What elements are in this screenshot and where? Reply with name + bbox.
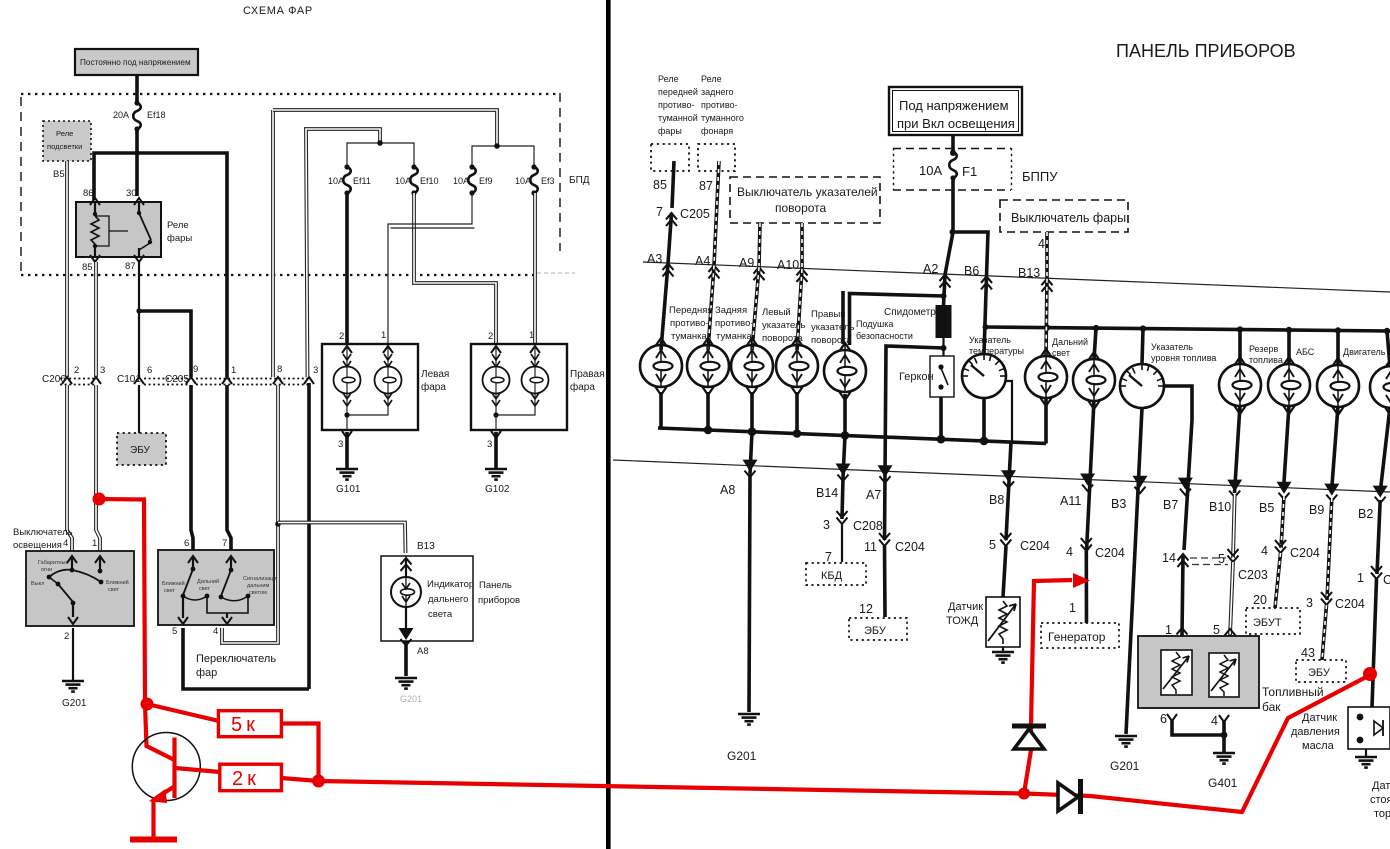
svg-text:Панель: Панель — [479, 580, 512, 591]
svg-text:С203: С203 — [1238, 568, 1268, 582]
red wire 5k to collector junction — [281, 724, 318, 782]
svg-text:свет: свет — [164, 588, 175, 594]
svg-text:Реле: Реле — [167, 220, 189, 231]
svg-text:указатель: указатель — [762, 320, 805, 331]
svg-text:А8: А8 — [417, 646, 429, 657]
svg-text:Дальний: Дальний — [197, 578, 219, 585]
svg-text:Дат: Дат — [1372, 780, 1390, 792]
ABS lamp АБС — [1268, 357, 1310, 414]
svg-text:Еf10: Еf10 — [420, 176, 439, 186]
bus row 1 line — [643, 262, 1390, 292]
svg-text:противо-: противо- — [658, 100, 695, 110]
fuel gauge sender output to B7 — [1164, 386, 1192, 550]
reserve lamp Резерв топлива — [1219, 357, 1261, 414]
svg-text:ЭБУ: ЭБУ — [1308, 667, 1331, 679]
svg-text:указатель: указатель — [811, 322, 854, 333]
svg-text:9: 9 — [193, 364, 198, 375]
red tap blob on light switch wire — [93, 493, 106, 506]
wire feed to fuel gauge — [1142, 329, 1143, 364]
wire Ef10 to right lamp pin2 (double) — [414, 193, 496, 344]
bus row 2 line — [613, 460, 1390, 492]
fuse Ef9 10A — [468, 164, 476, 195]
svg-text:4: 4 — [1261, 544, 1268, 558]
wire dimmer pin5 low beam to x310 riser — [183, 628, 309, 689]
wire edge lamp to B2 — [1380, 407, 1390, 494]
feed wire to fuses Ef11/Ef10 (double) — [306, 129, 380, 377]
svg-text:туманка: туманка — [716, 331, 753, 342]
svg-text:топлива: топлива — [1249, 355, 1283, 365]
fuse block dashed border БПД (left) — [21, 93, 575, 275]
B14 column below bus — [843, 435, 845, 477]
svg-text:А9: А9 — [739, 256, 754, 270]
svg-text:Спидометр: Спидометр — [884, 307, 936, 318]
wire dimmer pin4 loop to x278 riser (double) — [222, 524, 278, 643]
svg-text:Выкл: Выкл — [31, 581, 44, 587]
svg-text:Реле: Реле — [658, 74, 679, 84]
fuse Ef11 10A — [343, 164, 351, 195]
svg-text:масла: масла — [1302, 740, 1335, 752]
red ground bar — [130, 837, 177, 843]
svg-text:при Вкл освещения: при Вкл освещения — [897, 116, 1015, 131]
svg-text:противо-: противо- — [670, 318, 709, 329]
svg-text:3: 3 — [823, 518, 830, 532]
svg-text:приборов: приборов — [478, 595, 520, 606]
svg-text:14: 14 — [1162, 551, 1176, 565]
power box Под напряжением при Вкл освещения — [889, 87, 1022, 135]
svg-text:Еf3: Еf3 — [541, 176, 555, 186]
wire fuse F1 to A2 and B6 — [951, 178, 955, 232]
svg-text:G101: G101 — [336, 484, 361, 495]
svg-text:2к: 2к — [232, 768, 260, 790]
svg-text:БПД: БПД — [569, 175, 590, 186]
edge lamp partial — [1370, 359, 1390, 416]
svg-text:1: 1 — [529, 330, 534, 341]
svg-text:43: 43 — [1301, 646, 1315, 660]
right headlamp box Правая фара — [471, 330, 567, 438]
svg-text:А7: А7 — [866, 488, 881, 502]
svg-text:Постоянно под напряжением: Постоянно под напряжением — [80, 58, 191, 67]
svg-text:3: 3 — [313, 365, 318, 376]
svg-text:подсветки: подсветки — [47, 142, 82, 151]
svg-text:7: 7 — [825, 550, 832, 564]
svg-text:12: 12 — [859, 602, 873, 616]
B9 column striped C204 ЭБУ — [1296, 498, 1365, 682]
svg-text:87: 87 — [125, 261, 136, 272]
svg-text:6: 6 — [1160, 712, 1167, 726]
speedometer signal to A7 column — [885, 346, 944, 540]
svg-text:С204: С204 — [1020, 539, 1050, 553]
ground G101 — [336, 469, 358, 480]
wire Ef3 to right lamp pin1 (double) — [533, 193, 537, 344]
left headlamp box Левая фара — [322, 330, 418, 438]
svg-text:фара: фара — [421, 381, 446, 393]
svg-text:В5: В5 — [1259, 501, 1274, 515]
power box Постоянно под напряжением — [75, 49, 198, 75]
svg-text:фары: фары — [658, 126, 682, 136]
fuel gauge Указатель уровня топлива — [1120, 364, 1164, 408]
svg-text:С204: С204 — [1095, 546, 1125, 560]
fuel tank box Топливный бак — [1138, 636, 1259, 708]
wire B6 down to temp gauge — [984, 276, 987, 354]
svg-text:В13: В13 — [1018, 266, 1040, 280]
svg-text:ПАНЕЛЬ ПРИБОРОВ: ПАНЕЛЬ ПРИБОРОВ — [1116, 41, 1296, 61]
airbag lamp feed from A2 column — [850, 294, 944, 346]
wire A9 to left turn lamp (striped) — [752, 267, 759, 350]
svg-text:10А: 10А — [453, 176, 469, 186]
fuel temp sensor Датчик ТОЖД — [946, 597, 1020, 663]
svg-text:7: 7 — [222, 538, 227, 549]
wire junction to B13 indicator (double) — [278, 523, 406, 554]
divider line between schematic halves — [606, 0, 611, 849]
svg-text:Левая: Левая — [421, 369, 449, 380]
dashed box around fuse F1 — [893, 148, 1012, 190]
svg-text:А2: А2 — [923, 262, 938, 276]
svg-text:СХЕМА ФАР: СХЕМА ФАР — [243, 5, 313, 17]
svg-text:G201: G201 — [62, 698, 87, 709]
svg-text:светом: светом — [249, 590, 267, 596]
high beam indicator box Индикатор дальнего света — [381, 541, 473, 646]
wire turn switch to A10 (striped) — [800, 223, 804, 269]
wire Ef11 to left lamp pin2 — [345, 193, 349, 350]
svg-text:Выключатель: Выключатель — [13, 527, 73, 538]
svg-text:свет: свет — [1052, 348, 1070, 358]
row2 feed bus from B6 — [986, 327, 1390, 331]
fuse Ef18 20A — [133, 100, 141, 131]
svg-text:температуры: температуры — [969, 346, 1024, 356]
svg-text:фар: фар — [196, 667, 217, 679]
red blob on B2 wire — [1363, 667, 1377, 681]
junction x278 to indicator feed — [275, 521, 281, 527]
svg-text:87: 87 — [699, 179, 713, 193]
wire branch to relay pins 86 and C205 pin1 — [94, 153, 227, 377]
svg-text:Ближний: Ближний — [106, 579, 129, 586]
svg-text:Индикатор: Индикатор — [427, 579, 474, 590]
wire A3 to front fog lamp — [661, 264, 668, 351]
svg-text:БППУ: БППУ — [1022, 169, 1058, 184]
wire high beam lamp to bus end — [1044, 397, 1048, 444]
svg-text:11: 11 — [864, 540, 877, 554]
red arrowhead at A11 wire — [1073, 573, 1090, 588]
svg-text:С204: С204 — [895, 540, 925, 554]
svg-text:Правая: Правая — [570, 369, 605, 380]
B5 column striped C204 ЭБУТ — [1246, 496, 1320, 634]
dimmer switch box Переключатель фар — [158, 538, 279, 625]
svg-text:5: 5 — [1213, 623, 1220, 637]
svg-text:10А: 10А — [515, 176, 531, 186]
svg-text:Еf11: Еf11 — [353, 176, 371, 186]
red wire 2k to junction — [281, 778, 318, 781]
red wire base feed into transistor — [145, 704, 175, 760]
svg-text:1: 1 — [381, 330, 386, 341]
svg-text:6: 6 — [147, 365, 152, 376]
svg-text:фары: фары — [167, 233, 192, 244]
svg-text:С204: С204 — [1290, 546, 1320, 560]
svg-text:С2: С2 — [1383, 573, 1390, 587]
svg-text:3: 3 — [1306, 596, 1313, 610]
svg-text:4: 4 — [1066, 545, 1073, 559]
svg-text:1: 1 — [1165, 623, 1172, 637]
svg-text:А11: А11 — [1060, 494, 1081, 508]
fuse F1 10A — [949, 149, 957, 180]
svg-text:6: 6 — [184, 538, 189, 549]
svg-text:В13: В13 — [417, 541, 435, 552]
svg-text:4: 4 — [1038, 237, 1045, 251]
svg-text:освещения: освещения — [13, 540, 62, 551]
svg-text:света: света — [428, 609, 453, 620]
resistor R2 2k (red box) — [220, 764, 282, 791]
svg-text:огни: огни — [41, 567, 52, 573]
svg-text:4: 4 — [1211, 714, 1218, 728]
dotted box rear fog relay — [698, 144, 735, 171]
svg-text:туманного: туманного — [701, 113, 744, 123]
wire 87 to C205 pin9 — [139, 311, 191, 377]
svg-text:А3: А3 — [647, 252, 662, 266]
wire low beam x310 thick — [307, 383, 311, 689]
wire 87 to C101 pin6 — [138, 311, 140, 377]
svg-text:Левый: Левый — [762, 307, 791, 318]
svg-text:30: 30 — [126, 188, 137, 199]
wire relay 87 down — [138, 262, 140, 311]
svg-text:20: 20 — [1253, 593, 1267, 607]
svg-text:Двигатель: Двигатель — [1343, 347, 1386, 357]
svg-text:В10: В10 — [1209, 500, 1231, 514]
svg-text:дальним: дальним — [247, 583, 269, 589]
right turn lamp — [776, 338, 818, 395]
svg-text:КБД: КБД — [821, 570, 843, 582]
svg-text:уровня топлива: уровня топлива — [1151, 353, 1216, 363]
long red wire across page — [319, 781, 1025, 794]
fuse top bus Ef9-Ef3 — [472, 146, 534, 168]
wire front fog relay to A3 w/ C205 pin7 — [672, 161, 674, 208]
wire C206/2 to light switch pin4 (double) — [67, 385, 72, 551]
return bus (thick) — [658, 428, 1046, 444]
junction 87 — [136, 308, 141, 313]
left turn lamp — [731, 338, 773, 395]
generator dotted box Генератор — [1041, 623, 1119, 648]
red junction blob — [141, 698, 154, 711]
svg-text:передней: передней — [658, 87, 698, 97]
lamp row1 return stubs — [659, 392, 663, 428]
svg-text:4: 4 — [213, 626, 218, 637]
wire lamp2 to A11 — [1087, 400, 1095, 551]
svg-text:свет: свет — [108, 587, 119, 593]
svg-text:Датчик: Датчик — [948, 601, 983, 613]
svg-text:стоя: стоя — [1370, 794, 1390, 806]
svg-text:Указатель: Указатель — [969, 335, 1011, 345]
ground G102 — [485, 469, 507, 480]
light switch box Выключатель освещения — [26, 538, 134, 626]
svg-text:поворота: поворота — [775, 201, 827, 215]
front fog lamp — [640, 338, 682, 395]
svg-text:3: 3 — [338, 439, 343, 450]
svg-text:5: 5 — [172, 626, 177, 637]
svg-text:давления: давления — [1291, 726, 1340, 738]
svg-text:Топливный: Топливный — [1262, 685, 1324, 699]
oil pressure switch box Датчик давления масла — [1348, 707, 1390, 749]
svg-text:85: 85 — [82, 262, 93, 273]
svg-text:2: 2 — [64, 631, 69, 642]
B14 column C208 КБД — [806, 478, 883, 586]
svg-text:7: 7 — [656, 205, 663, 219]
svg-text:Реле: Реле — [701, 74, 722, 84]
temp gauge Указатель температуры — [962, 354, 1006, 398]
red junction blob 2 — [312, 775, 325, 788]
fuel tank bottom pins 6 4 to G401 — [1160, 712, 1238, 790]
junction at fuse/branch — [134, 150, 140, 156]
svg-text:А10: А10 — [777, 258, 799, 272]
svg-text:В5: В5 — [53, 169, 65, 180]
svg-text:G401: G401 — [1208, 776, 1238, 790]
svg-text:10А: 10А — [919, 163, 942, 178]
svg-text:В9: В9 — [1309, 503, 1324, 517]
speedometer pickup black rect — [936, 305, 952, 338]
relay box Реле подсветки — [43, 121, 91, 161]
wire fuse Ef18 down to relay branch — [135, 129, 139, 196]
svg-text:Выключатель фары: Выключатель фары — [1011, 211, 1126, 225]
svg-text:С208: С208 — [853, 519, 883, 533]
svg-text:С204: С204 — [1335, 597, 1365, 611]
svg-text:Дальний: Дальний — [1052, 337, 1088, 347]
svg-text:В3: В3 — [1111, 497, 1126, 511]
red wire continue right of junction3 — [1024, 794, 1090, 797]
svg-text:ЭБУ: ЭБУ — [130, 445, 151, 456]
svg-text:Передняя: Передняя — [669, 305, 713, 316]
airbag/B14 column upper stub — [841, 291, 845, 344]
lamp row1 labels — [669, 305, 936, 346]
B7 column 14 — [1162, 551, 1228, 641]
feed wire to fuses Ef9/Ef3 (double) — [273, 110, 497, 146]
svg-text:Еf9: Еf9 — [479, 176, 493, 186]
wire C205/8 vertical x278 (double) — [276, 385, 280, 524]
diode D2 horizontal (black) — [1058, 779, 1081, 814]
svg-text:G102: G102 — [485, 484, 510, 495]
wire fuel gauge to B3 — [1126, 408, 1142, 734]
airbag lamp — [824, 343, 866, 400]
red wire junction to resistor 5k — [147, 704, 219, 721]
wire turn switch to A9 (striped) — [759, 223, 760, 267]
fuse Ef10 10A — [410, 164, 418, 195]
resistor R1 5k (red box) — [218, 711, 281, 737]
wire power box to fuse F1 — [951, 135, 955, 155]
svg-text:1: 1 — [1069, 601, 1076, 615]
svg-text:В14: В14 — [816, 486, 838, 500]
svg-text:А8: А8 — [720, 483, 735, 497]
svg-text:Геркон: Геркон — [899, 371, 934, 383]
svg-text:85: 85 — [653, 178, 667, 192]
wire C205/9 to dimmer pin6 — [191, 385, 193, 550]
wire headlamp switch to B13 — [1045, 232, 1049, 279]
svg-text:1: 1 — [231, 365, 236, 376]
svg-text:В6: В6 — [964, 264, 979, 278]
ЭБУ dotted box (left) — [117, 433, 166, 465]
A11 column C204 Генератор — [1066, 538, 1125, 623]
wire pickup to reed switch — [942, 338, 944, 356]
B8 drop — [1006, 442, 1011, 540]
turn signal switch dashed box Выключатель указателей поворота — [730, 177, 880, 223]
wire A10 to right turn lamp (striped) — [797, 269, 802, 350]
svg-text:Подушка: Подушка — [856, 319, 893, 329]
svg-text:противо-: противо- — [715, 318, 754, 329]
svg-text:3: 3 — [487, 439, 492, 450]
svg-text:Ближний: Ближний — [162, 580, 185, 587]
svg-text:1: 1 — [92, 538, 97, 549]
svg-text:10А: 10А — [328, 176, 344, 186]
svg-text:туманка: туманка — [671, 331, 708, 342]
wire Реле подсветки to C206 pin2 (double thin) — [65, 161, 69, 377]
svg-text:тор: тор — [1374, 808, 1390, 820]
svg-text:АБС: АБС — [1296, 347, 1315, 357]
wire reserve lamp to B10 — [1235, 405, 1241, 493]
svg-text:туманной: туманной — [658, 113, 698, 123]
svg-text:ЭБУТ: ЭБУТ — [1253, 617, 1282, 629]
wire A2 to speedometer pickup — [944, 275, 946, 306]
svg-text:2: 2 — [74, 365, 79, 376]
svg-text:Сигнализация: Сигнализация — [243, 576, 279, 582]
svg-text:свет: свет — [199, 586, 210, 592]
wire B13 down to high beam lamp — [1046, 279, 1047, 357]
wire A4 to rear fog lamp (striped) — [708, 265, 714, 350]
svg-text:А4: А4 — [695, 254, 710, 268]
engine lamp Двигатель — [1317, 358, 1359, 415]
svg-text:Под напряжением: Под напряжением — [899, 98, 1009, 113]
svg-text:4: 4 — [63, 538, 68, 549]
row2 lamp2 (fed at 1096) — [1073, 352, 1115, 409]
svg-text:1: 1 — [1357, 571, 1364, 585]
svg-text:бак: бак — [1262, 700, 1281, 714]
svg-text:В2: В2 — [1358, 507, 1373, 521]
svg-text:С205: С205 — [680, 207, 710, 221]
dotted box front fog relay — [651, 144, 689, 171]
svg-text:5к: 5к — [231, 714, 259, 736]
red junction blob 3 — [1018, 788, 1030, 800]
svg-text:противо-: противо- — [701, 100, 738, 110]
svg-text:Генератор: Генератор — [1048, 630, 1106, 644]
feed bus junctions — [1044, 324, 1390, 334]
wire A8 to G201 — [749, 474, 750, 712]
fuse top bus Ef11-Ef10 — [347, 143, 414, 168]
high beam lamp Дальний свет — [1025, 349, 1067, 406]
wire ABS lamp to B5 — [1284, 405, 1290, 490]
rear fog lamp — [687, 338, 729, 395]
svg-text:фонаря: фонаря — [701, 126, 733, 136]
svg-text:8: 8 — [277, 364, 282, 375]
svg-text:20А: 20А — [113, 110, 129, 120]
svg-text:10А: 10А — [395, 176, 411, 186]
diode D1 vertical (black) — [1012, 726, 1046, 749]
A8 column below bus — [750, 432, 752, 474]
svg-text:безопасности: безопасности — [856, 331, 913, 341]
svg-text:заднего: заднего — [701, 87, 733, 97]
svg-text:Датчик: Датчик — [1302, 712, 1337, 724]
svg-text:G201: G201 — [1110, 759, 1140, 773]
svg-text:В8: В8 — [989, 493, 1004, 507]
temp gauge output to B8 — [982, 398, 986, 441]
svg-text:86: 86 — [83, 188, 94, 199]
wire oil switch to ground — [1365, 749, 1367, 757]
bus1 connector arrows A3 A4 A9 A10 A2 B6 B13 — [663, 264, 1053, 292]
A7 column C204 ЭБУ — [849, 533, 925, 640]
red wire tap to riser — [99, 499, 145, 704]
connector row C206 C101 C205 — [42, 364, 318, 385]
svg-text:Габаритные: Габаритные — [38, 560, 69, 566]
label Реле передней противотуманной фары — [658, 74, 698, 136]
red wire to B2 tap — [1090, 676, 1368, 812]
wire C101 pin6 to ЭБУ — [138, 385, 140, 433]
svg-text:Еf18: Еf18 — [147, 110, 166, 120]
red riser to A11 tap — [1024, 580, 1072, 794]
reed switch box Геркон — [930, 356, 954, 397]
svg-text:дальнего: дальнего — [428, 594, 468, 605]
